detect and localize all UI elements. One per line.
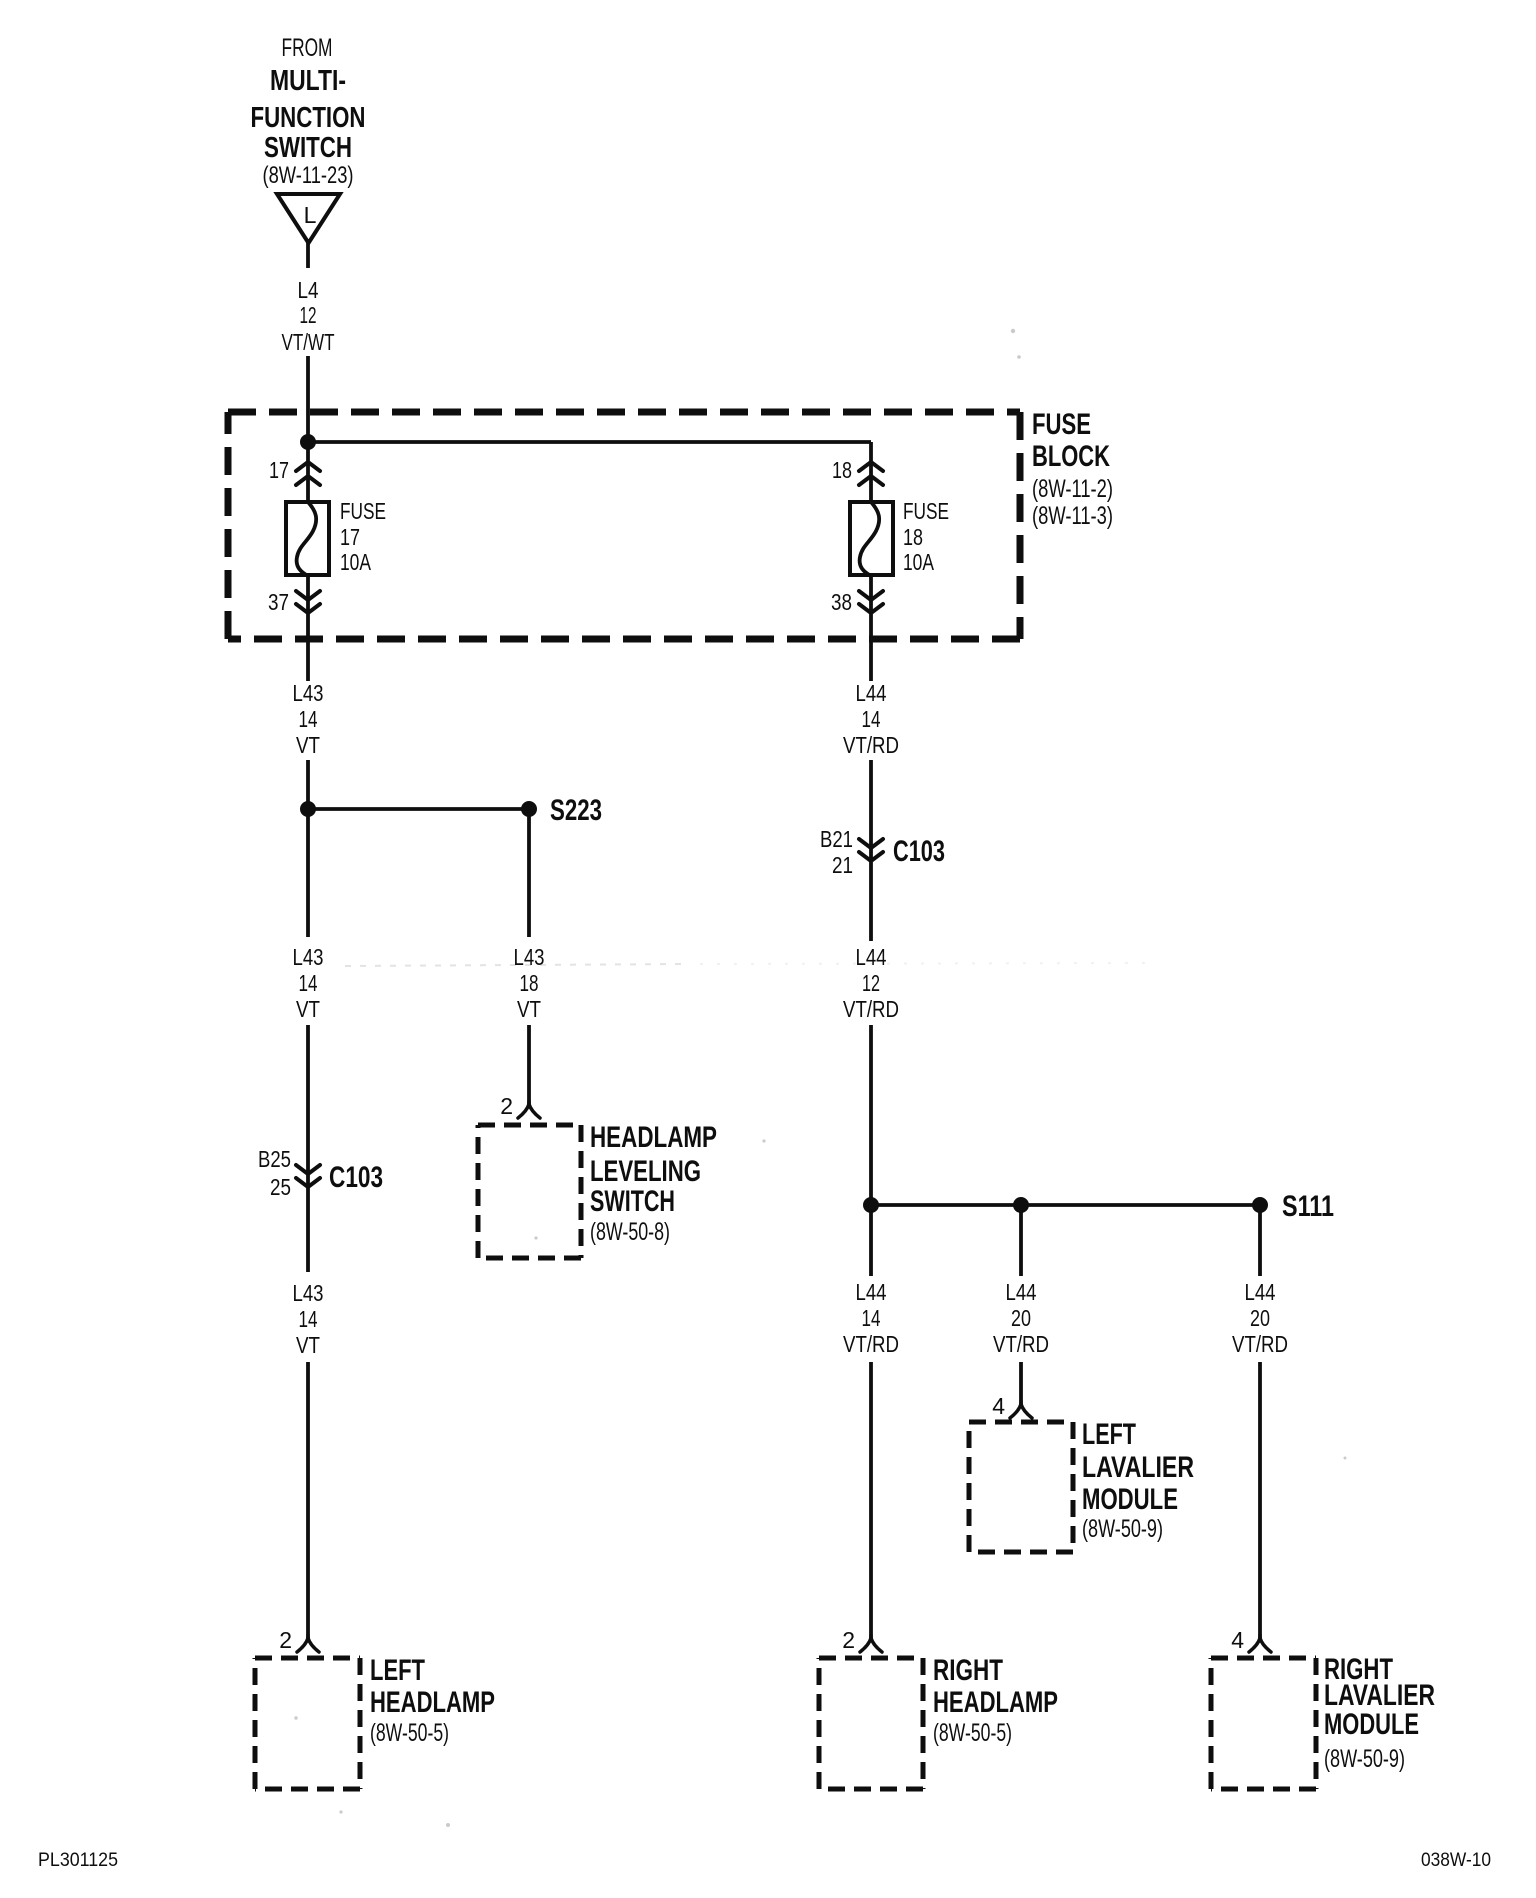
fuse block name label	[1032, 408, 1113, 530]
left lavalier module name label	[1082, 1418, 1194, 1543]
wire below fuse 18	[869, 575, 873, 681]
svg-text:LEVELING: LEVELING	[590, 1155, 701, 1188]
svg-text:37: 37	[268, 589, 289, 615]
left lavalier module dashed box	[969, 1422, 1073, 1552]
splice S223 horizontal wire	[308, 807, 529, 811]
svg-text:FUNCTION: FUNCTION	[251, 102, 366, 134]
wire label L43 14 VT (middle)	[293, 944, 324, 1022]
svg-text:18: 18	[903, 524, 923, 550]
svg-text:C103: C103	[329, 1161, 383, 1194]
wire below S111 dot 3	[1258, 1205, 1262, 1276]
svg-text:HEADLAMP: HEADLAMP	[590, 1121, 717, 1154]
wire to left headlamp	[306, 1362, 310, 1638]
right headlamp name label	[933, 1654, 1058, 1747]
svg-text:4: 4	[992, 1393, 1005, 1419]
svg-text:L: L	[304, 202, 317, 228]
svg-text:L44: L44	[856, 944, 887, 970]
left headlamp name label	[370, 1654, 495, 1747]
node: S111 dot 3	[1252, 1197, 1268, 1213]
fuse F17 body	[286, 502, 329, 576]
svg-text:14: 14	[299, 1306, 318, 1332]
svg-text:(8W-11-2): (8W-11-2)	[1032, 475, 1113, 503]
wire junction to fuse 17	[306, 442, 310, 502]
svg-text:10A: 10A	[340, 549, 371, 575]
fuse F17 value label	[340, 498, 386, 575]
svg-text:18: 18	[832, 457, 852, 483]
connector fork into left headlamp	[297, 1635, 319, 1652]
svg-text:S111: S111	[1282, 1190, 1334, 1223]
wire to connector C103 (right)	[869, 760, 873, 941]
svg-text:(8W-11-23): (8W-11-23)	[263, 162, 354, 189]
label: FROM MULTI-FUNCTION SWITCH header	[251, 34, 366, 189]
svg-text:VT: VT	[517, 996, 541, 1022]
svg-text:C103: C103	[893, 835, 945, 868]
wire label L43 18 VT	[514, 944, 545, 1022]
svg-text:VT: VT	[296, 1332, 320, 1358]
svg-text:L4: L4	[298, 277, 319, 303]
connector pin 18 chevrons	[859, 462, 883, 485]
svg-text:L44: L44	[1245, 1279, 1276, 1305]
wire label L43 14 VT (lower)	[293, 1280, 324, 1358]
svg-text:L44: L44	[1006, 1279, 1037, 1305]
connector C103 right pin label B21 / 21	[820, 826, 853, 878]
svg-text:VT: VT	[296, 732, 320, 758]
svg-text:HEADLAMP: HEADLAMP	[933, 1686, 1058, 1719]
svg-text:VT/RD: VT/RD	[843, 732, 899, 758]
svg-text:L43: L43	[293, 944, 324, 970]
wire below S223 left	[306, 809, 310, 937]
headlamp leveling switch name label	[590, 1121, 717, 1246]
svg-text:B25: B25	[258, 1146, 291, 1172]
wire label L44 20 VT/RD (right branch)	[1232, 1279, 1288, 1357]
wire label L44 14 VT/RD (lower)	[843, 1279, 899, 1357]
wire label L4 12 VT/WT	[282, 277, 335, 355]
connector pin 38 chevrons	[859, 591, 883, 613]
wire below S111 dot 2	[1019, 1205, 1023, 1276]
svg-text:HEADLAMP: HEADLAMP	[370, 1686, 495, 1719]
svg-text:20: 20	[1011, 1305, 1031, 1331]
svg-text:S223: S223	[550, 794, 602, 827]
svg-text:(8W-50-8): (8W-50-8)	[590, 1218, 670, 1246]
svg-text:38: 38	[831, 589, 852, 615]
svg-text:2: 2	[279, 1627, 292, 1653]
connector fork into right headlamp	[860, 1635, 882, 1652]
node: S223 right dot	[521, 801, 537, 817]
svg-text:(8W-50-5): (8W-50-5)	[933, 1719, 1012, 1747]
svg-text:FUSE: FUSE	[1032, 408, 1091, 441]
connector pin 17 chevrons	[296, 462, 320, 485]
svg-text:MODULE: MODULE	[1082, 1483, 1178, 1516]
connector C103 right chevrons	[859, 839, 883, 861]
wire below S111 dot 1	[869, 1205, 873, 1276]
wire from triangle to label L4	[306, 243, 310, 268]
svg-text:VT/RD: VT/RD	[993, 1331, 1049, 1357]
svg-text:FUSE: FUSE	[903, 498, 949, 524]
node: S111 dot 1	[863, 1197, 879, 1213]
svg-text:RIGHT: RIGHT	[933, 1654, 1003, 1687]
svg-text:L44: L44	[856, 680, 887, 706]
svg-text:LEFT: LEFT	[370, 1654, 425, 1687]
svg-text:VT/RD: VT/RD	[843, 996, 899, 1022]
svg-text:20: 20	[1250, 1305, 1270, 1331]
svg-text:MULTI-: MULTI-	[270, 65, 346, 97]
svg-text:14: 14	[862, 706, 881, 732]
svg-text:12: 12	[862, 970, 880, 996]
svg-text:14: 14	[299, 970, 318, 996]
circuit source triangle L (from multi-function switch)	[277, 194, 340, 243]
svg-text:MODULE: MODULE	[1324, 1708, 1419, 1741]
svg-text:(8W-50-9): (8W-50-9)	[1324, 1745, 1405, 1773]
svg-text:2: 2	[842, 1627, 855, 1653]
svg-text:14: 14	[862, 1305, 881, 1331]
wire label L44 12 VT/RD	[843, 944, 899, 1022]
svg-text:(8W-11-3): (8W-11-3)	[1032, 502, 1113, 530]
connector fork into leveling switch	[518, 1101, 540, 1118]
svg-text:18: 18	[520, 970, 539, 996]
svg-text:(8W-50-5): (8W-50-5)	[370, 1719, 449, 1747]
wire down to fuse 18	[869, 442, 873, 502]
svg-text:L43: L43	[514, 944, 545, 970]
wire to splice S223	[306, 760, 310, 809]
svg-text:10A: 10A	[903, 549, 934, 575]
svg-text:VT/RD: VT/RD	[1232, 1331, 1288, 1357]
svg-text:VT: VT	[296, 996, 320, 1022]
wire label L44 14 VT/RD (upper)	[843, 680, 899, 758]
node: S111 dot 2	[1013, 1197, 1029, 1213]
connector C103 left chevrons	[296, 1165, 320, 1187]
svg-text:2: 2	[500, 1093, 513, 1119]
svg-text:4: 4	[1231, 1627, 1244, 1653]
svg-text:SWITCH: SWITCH	[264, 132, 352, 164]
wire to right headlamp	[869, 1362, 873, 1638]
splice S111 horizontal wire	[871, 1203, 1260, 1207]
node: splice junction in fuse block	[300, 434, 316, 450]
wire to headlamp leveling switch	[527, 1025, 531, 1104]
svg-text:BLOCK: BLOCK	[1032, 440, 1110, 473]
svg-text:PL301125: PL301125	[38, 1850, 118, 1871]
svg-text:B21: B21	[820, 826, 853, 852]
svg-text:L43: L43	[293, 680, 324, 706]
wire label L44 20 VT/RD (middle branch)	[993, 1279, 1049, 1357]
svg-text:SWITCH: SWITCH	[590, 1185, 675, 1218]
svg-text:FUSE: FUSE	[340, 498, 386, 524]
wire bus to fuse 18	[308, 440, 871, 444]
svg-text:21: 21	[832, 852, 853, 878]
connector fork into right lavalier module	[1249, 1635, 1271, 1652]
wire into fuse block	[306, 356, 310, 442]
svg-text:VT/WT: VT/WT	[282, 329, 335, 355]
fuse block dashed enclosure	[228, 412, 1020, 639]
headlamp leveling switch dashed box	[478, 1125, 581, 1258]
svg-text:FROM: FROM	[282, 34, 333, 62]
right lavalier module name label	[1324, 1653, 1435, 1773]
svg-text:14: 14	[299, 706, 318, 732]
fuse F18 value label	[903, 498, 949, 575]
svg-text:(8W-50-9): (8W-50-9)	[1082, 1515, 1163, 1543]
connector pin 37 chevrons	[296, 591, 320, 613]
right lavalier module dashed box	[1211, 1658, 1316, 1789]
svg-text:17: 17	[269, 457, 289, 483]
wire to left lavalier module	[1019, 1362, 1023, 1404]
svg-text:17: 17	[340, 524, 360, 550]
connector C103 left pin label B25 / 25	[258, 1146, 291, 1200]
svg-text:038W-10: 038W-10	[1421, 1850, 1491, 1871]
left headlamp dashed box	[255, 1658, 360, 1789]
wire label L43 14 VT (upper)	[293, 680, 324, 758]
node: S223 left dot	[300, 801, 316, 817]
svg-text:L44: L44	[856, 1279, 887, 1305]
wire to right lavalier module	[1258, 1362, 1262, 1638]
wire below fuse 17	[306, 575, 310, 681]
svg-text:L43: L43	[293, 1280, 324, 1306]
wire below S223 right branch	[527, 809, 531, 937]
scan artifact streak	[294, 329, 1346, 1827]
svg-text:25: 25	[270, 1174, 291, 1200]
fuse F18 body	[850, 502, 893, 576]
svg-text:12: 12	[300, 302, 317, 328]
svg-text:VT/RD: VT/RD	[843, 1331, 899, 1357]
wire to splice S111	[869, 1025, 873, 1205]
svg-text:LAVALIER: LAVALIER	[1082, 1451, 1194, 1484]
connector fork into left lavalier module	[1010, 1401, 1032, 1418]
wire to connector C103 (left)	[306, 1025, 310, 1272]
svg-text:LEFT: LEFT	[1082, 1418, 1136, 1451]
right headlamp dashed box	[819, 1658, 923, 1789]
